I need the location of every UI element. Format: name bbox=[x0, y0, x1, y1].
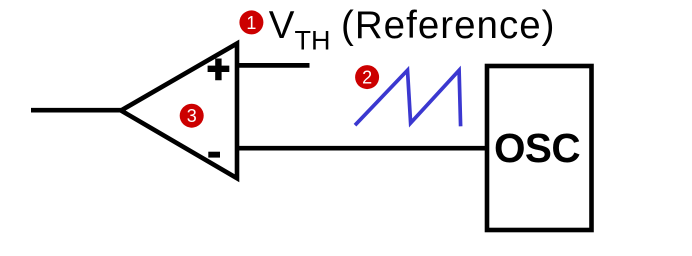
wire: - input to OSC bbox=[237, 146, 489, 151]
sawtooth waveform (oscillator ramp signal) bbox=[355, 70, 461, 126]
node 1 (red callout circle at VTH) bbox=[239, 10, 263, 34]
svg-text:TH: TH bbox=[295, 26, 331, 56]
svg-text:2: 2 bbox=[362, 68, 372, 88]
pin + (non-inverting input symbol) bbox=[208, 59, 230, 81]
svg-text:OSC: OSC bbox=[494, 125, 580, 171]
svg-text:3: 3 bbox=[187, 106, 197, 126]
svg-text:V: V bbox=[269, 4, 295, 47]
wire: + input to VTH reference bbox=[237, 63, 310, 68]
pin - (inverting input symbol) bbox=[208, 152, 220, 158]
node VTH (Reference) label bbox=[269, 4, 555, 56]
node 3 (red callout circle on comparator) bbox=[180, 104, 204, 128]
op-amp U1 (comparator triangle, pointing left) bbox=[121, 44, 237, 179]
node 2 (red callout circle at sawtooth) bbox=[355, 65, 379, 89]
wire: comparator output (left) bbox=[31, 108, 121, 113]
svg-text:1: 1 bbox=[246, 13, 256, 33]
svg-text:(Reference): (Reference) bbox=[341, 4, 555, 47]
oscillator block U2 (OSC box) bbox=[487, 66, 592, 230]
